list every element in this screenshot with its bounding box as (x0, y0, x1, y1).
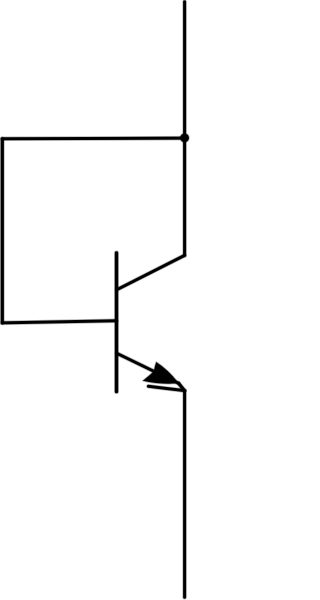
wire emitter tip link (179, 383, 185, 390)
wire emitter to bottom (148, 386, 184, 390)
transistor Q1 emitter arrowhead (143, 362, 179, 384)
wire collector diagonal (117, 255, 185, 289)
wire collector vertical (182, 2, 187, 256)
wire base horizontal (2, 321, 116, 323)
wire emitter vertical (182, 391, 187, 598)
transistor Q1 base bar (114, 253, 119, 392)
wire left vertical (0, 139, 5, 323)
wire top horizontal (2, 136, 184, 141)
transistor Q1 emitter (117, 353, 179, 383)
node junction dot (179, 133, 189, 143)
